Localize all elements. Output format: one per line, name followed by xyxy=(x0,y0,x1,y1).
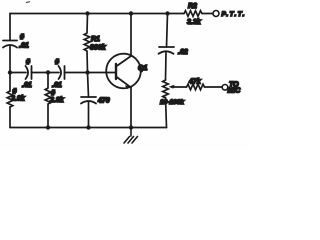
svg-text:R2: R2 xyxy=(188,3,197,10)
junction dot bottom second branch xyxy=(46,125,50,129)
junction dot 470 bottom xyxy=(86,125,90,129)
wire collector vertical xyxy=(130,14,132,56)
emitter arrowhead xyxy=(125,85,130,89)
junction dot R1 top xyxy=(85,11,89,15)
svg-text:47k: 47k xyxy=(188,79,202,86)
resistor R1 390k xyxy=(84,14,90,73)
wire left vertical top xyxy=(9,14,11,41)
svg-text:Q1: Q1 xyxy=(138,65,147,72)
junction dot emitter bottom xyxy=(129,125,133,129)
svg-text:#: # xyxy=(26,59,30,66)
svg-text:#: # xyxy=(13,89,17,96)
wire 470 branch lower xyxy=(88,103,90,128)
capacitor C1 .01 xyxy=(3,41,17,48)
capacitor C2 .01 xyxy=(26,66,32,79)
capacitor 470 xyxy=(81,97,96,104)
resistor 3.9k second branch xyxy=(45,73,51,128)
svg-text:#: # xyxy=(51,90,55,97)
ground xyxy=(124,128,138,144)
wire middle horizontal left xyxy=(10,72,26,74)
junction dot left-middle xyxy=(8,70,12,74)
wire R2 to terminal xyxy=(202,13,213,15)
wire 470 branch upper xyxy=(88,73,89,98)
wire 47k to terminal xyxy=(205,86,223,88)
wire left vertical middle xyxy=(9,46,11,91)
wire middle to base xyxy=(65,72,117,74)
svg-text:.01: .01 xyxy=(19,43,29,50)
wire bottom horizontal xyxy=(10,127,167,129)
svg-text:3.3k: 3.3k xyxy=(187,19,202,26)
svg-text:P.T.T.: P.T.T. xyxy=(222,11,246,18)
capacitor C4 .02 xyxy=(159,47,175,54)
transistor Q1 xyxy=(106,54,141,89)
svg-text:.01: .01 xyxy=(52,82,62,89)
wire C4 to pot xyxy=(165,53,168,81)
svg-text:#: # xyxy=(20,34,24,41)
svg-text:390k: 390k xyxy=(90,45,107,52)
svg-text:.02: .02 xyxy=(178,49,188,56)
svg-text:R1: R1 xyxy=(91,36,100,43)
junction dot mid-middle xyxy=(46,70,50,74)
wire middle between caps xyxy=(32,72,60,74)
wire left vertical bottom xyxy=(9,107,11,128)
terminal circle PTT xyxy=(213,11,219,17)
potentiometer 10-100k xyxy=(163,80,169,98)
wire top horizontal xyxy=(10,13,184,15)
junction dot collector top xyxy=(129,11,133,15)
capacitor C3 .01 xyxy=(59,66,65,79)
scan speck xyxy=(27,1,30,4)
svg-text:#: # xyxy=(55,59,59,66)
junction dot R1-bottom xyxy=(85,70,89,74)
wire C4 top xyxy=(167,14,168,48)
terminal circle TO MIC xyxy=(222,85,228,91)
svg-text:470: 470 xyxy=(97,98,110,105)
svg-text:MIC: MIC xyxy=(228,88,242,95)
svg-text:3.9k: 3.9k xyxy=(50,97,65,104)
svg-text:3.9k: 3.9k xyxy=(11,96,26,103)
svg-text:.01: .01 xyxy=(22,82,32,89)
resistor 47k xyxy=(187,84,205,90)
resistor 3.9k left xyxy=(7,91,13,107)
svg-text:10-100k: 10-100k xyxy=(160,99,184,106)
pot wiper arrow xyxy=(172,86,187,88)
resistor R2 3.3k xyxy=(184,11,202,17)
wire emitter vertical xyxy=(130,88,132,128)
wire pot bottom xyxy=(166,98,167,128)
junction dot C4 top xyxy=(165,11,169,15)
